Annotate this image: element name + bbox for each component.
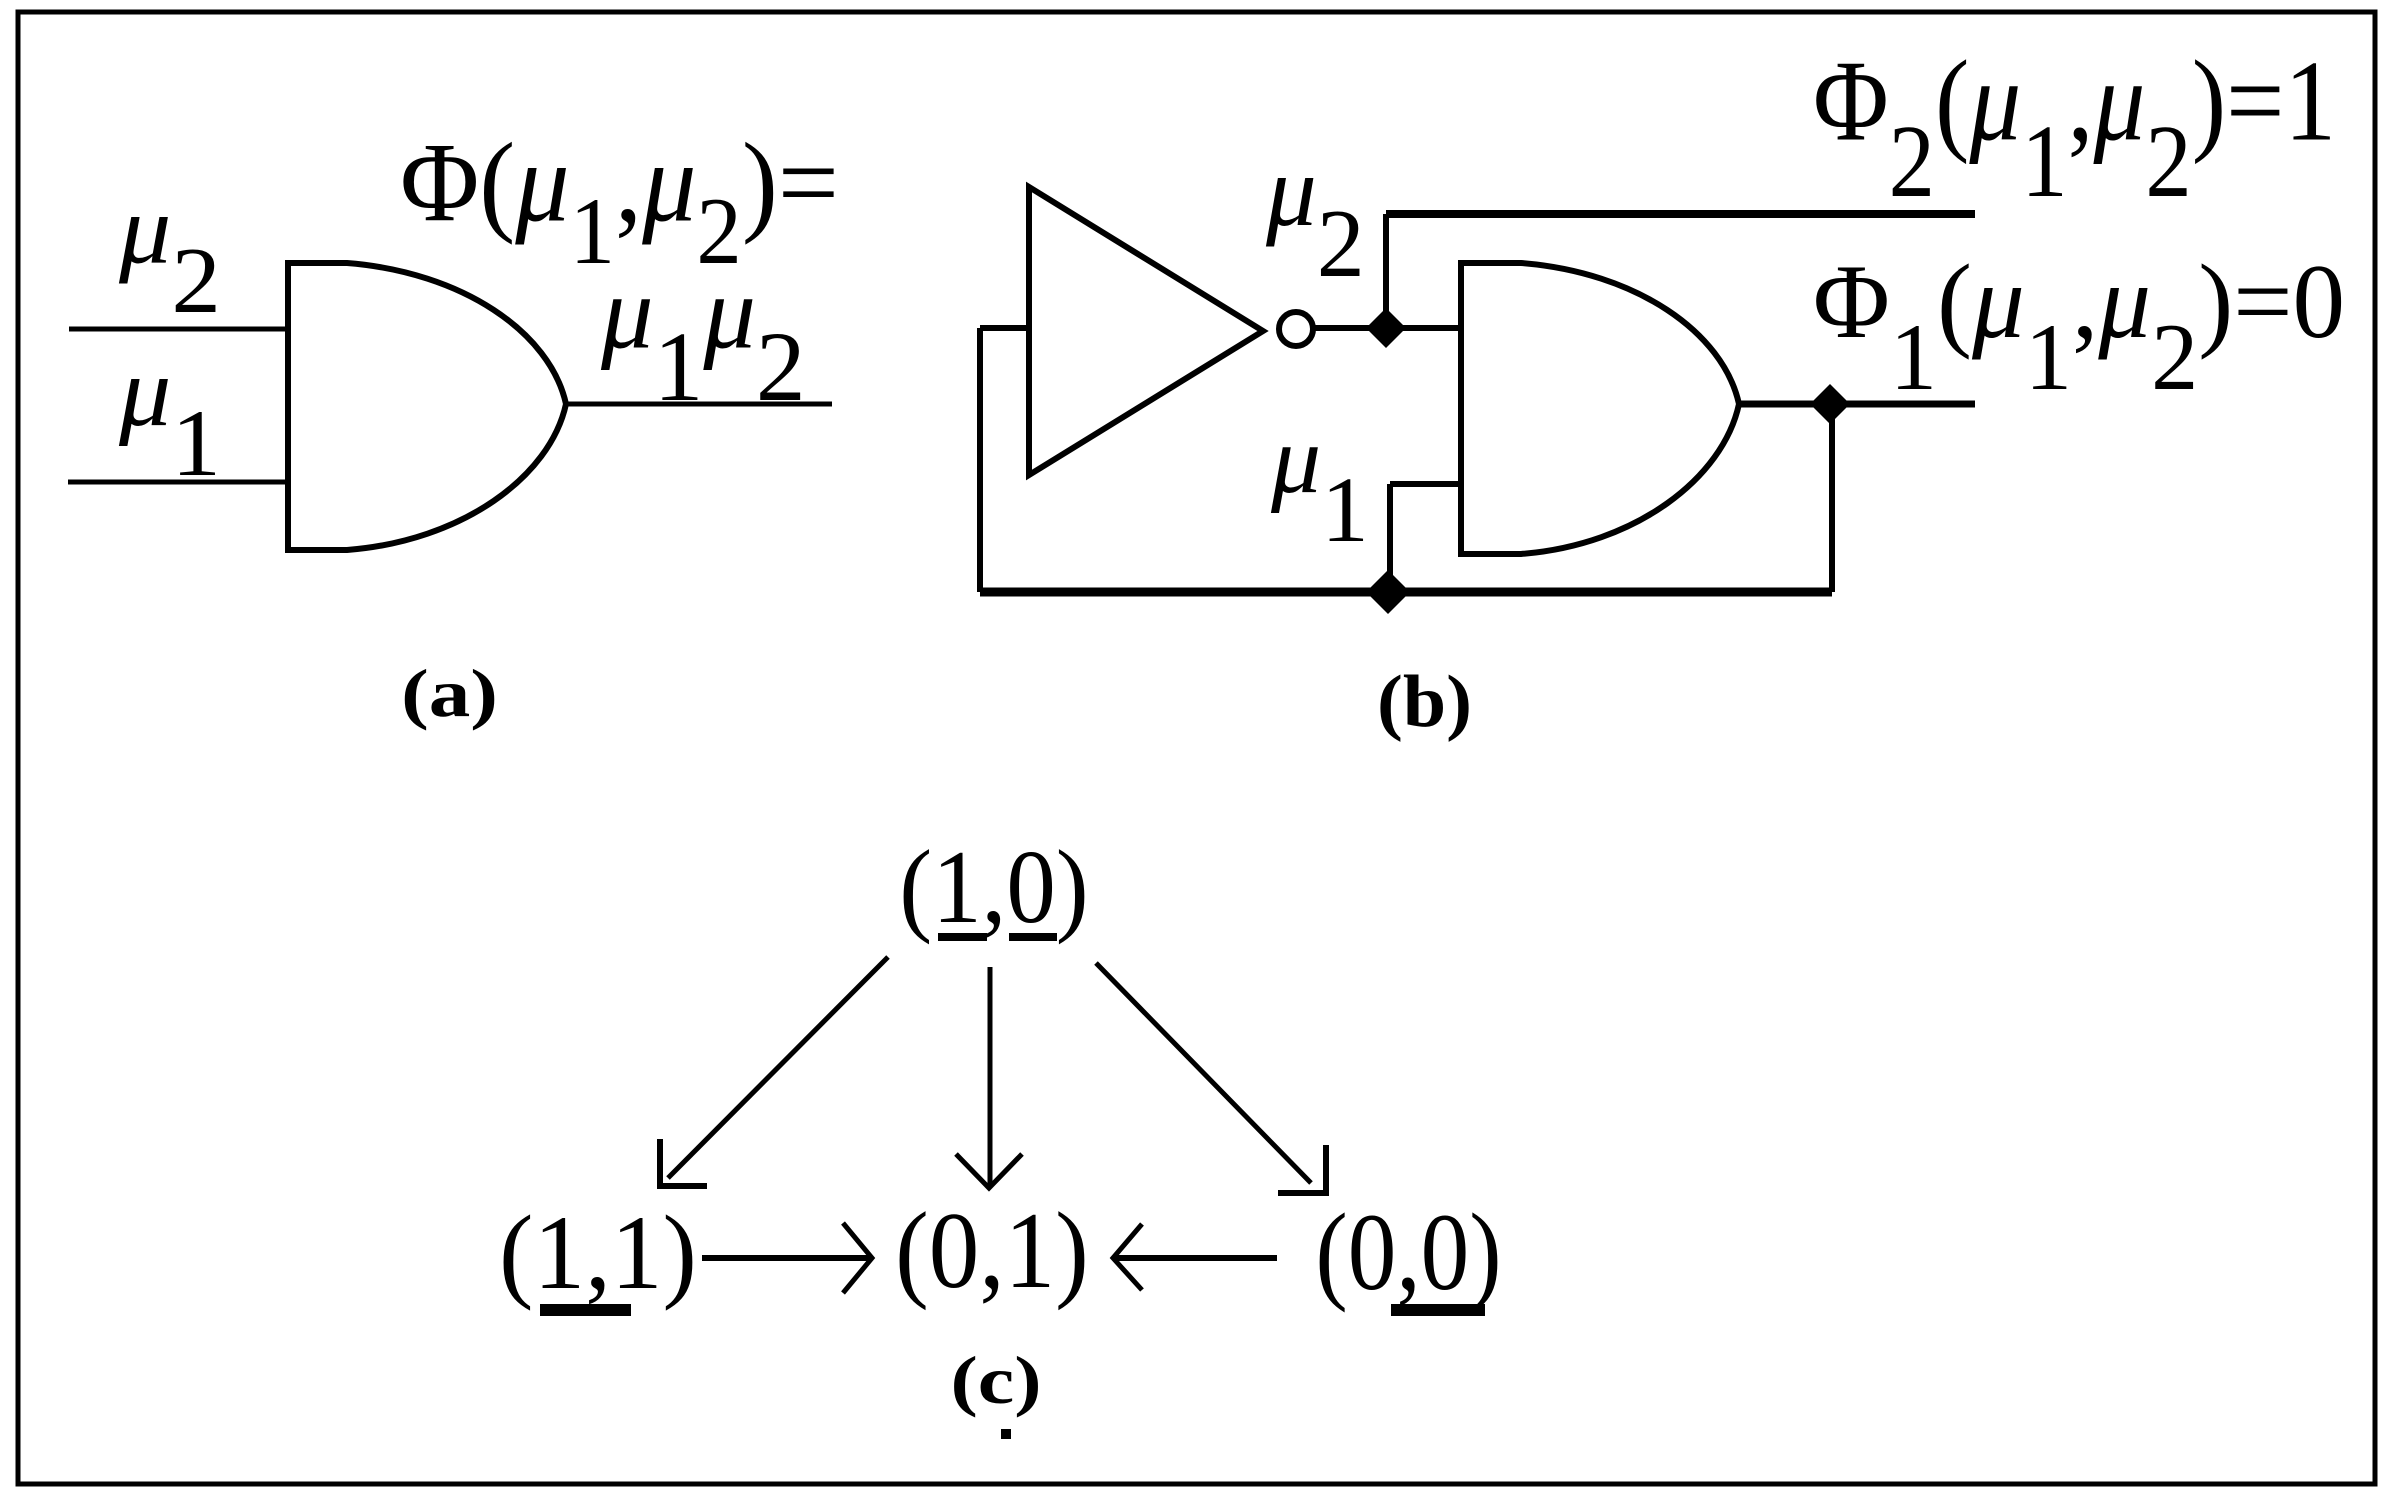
wire AND gate A2 output [1739,401,1975,408]
svg-text:Φ1(μ1,μ2)=0: Φ1(μ1,μ2)=0 [1813,243,2345,410]
arrow (1,0) to (0,0) head [1278,1145,1326,1193]
wire inverter U1 input [980,325,1029,331]
arrow (1,0) to (1,1) head [660,1139,707,1186]
wire mu2 input to AND gate A1 [69,327,288,332]
svg-text:Φ2(μ1,μ2)=1: Φ2(μ1,μ2)=1 [1813,36,2336,219]
arrow (1,1) to (0,1) shaft [702,1255,869,1261]
wire bottom feedback [980,588,1832,597]
AND gate A2 [1461,263,1739,554]
node Phi1 output junction dot [1810,384,1850,424]
wire mu1 to AND gate A2 lower input [1390,481,1461,487]
wire AND gate A1 output [566,402,832,407]
inverter U1 triangle [1029,187,1263,475]
underline state (1,0) digit 1 [938,933,987,941]
inverter U1 bubble [1279,312,1313,346]
svg-text:μ1μ2: μ1μ2 [600,253,806,422]
underline state (0,0) digit 0 [1391,1304,1485,1316]
arrow (1,0) to (0,1) shaft [988,967,993,1185]
underline state (1,1) digit 1 [540,1304,631,1316]
AND gate A1 [288,263,566,550]
svg-text:(c): (c) [950,1344,1041,1419]
stray dot artifact [1001,1429,1011,1439]
svg-text:(a): (a) [401,656,498,731]
svg-text:(0,1): (0,1) [895,1190,1089,1311]
arrow (1,0) to (0,0) shaft [1096,963,1311,1183]
svg-text:(0,0): (0,0) [1315,1191,1501,1313]
wire output junction down [1829,404,1835,592]
svg-text:μ2: μ2 [1265,134,1365,298]
wire feedback left vertical [977,328,983,592]
arrow (0,0) to (0,1) head [1113,1224,1142,1290]
arrow (0,0) to (0,1) shaft [1116,1255,1277,1261]
node mu2 junction dot [1366,308,1406,348]
wire node mu2 up to Phi2 output [1383,214,1389,328]
wire Phi2 output [1386,210,1975,218]
underline state (1,0) digit 0 [1009,933,1057,941]
arrow (1,1) to (0,1) head [843,1223,872,1293]
arrow (1,0) to (1,1) shaft [668,957,888,1178]
svg-text:(1,1): (1,1) [499,1194,697,1311]
svg-text:(1,0): (1,0) [899,829,1088,945]
svg-text:μ2: μ2 [118,174,221,332]
svg-text:μ1: μ1 [118,337,221,496]
wire mu1 vertical riser [1387,484,1393,592]
arrow (1,0) to (0,1) head [956,1154,1022,1188]
node mu1 junction dot [1366,570,1410,614]
wire inverter U1 output to node mu2 [1313,325,1461,331]
svg-text:(b): (b) [1377,660,1472,742]
wire mu1 input to AND gate A1 [68,480,288,485]
svg-text:μ1: μ1 [1270,406,1369,562]
